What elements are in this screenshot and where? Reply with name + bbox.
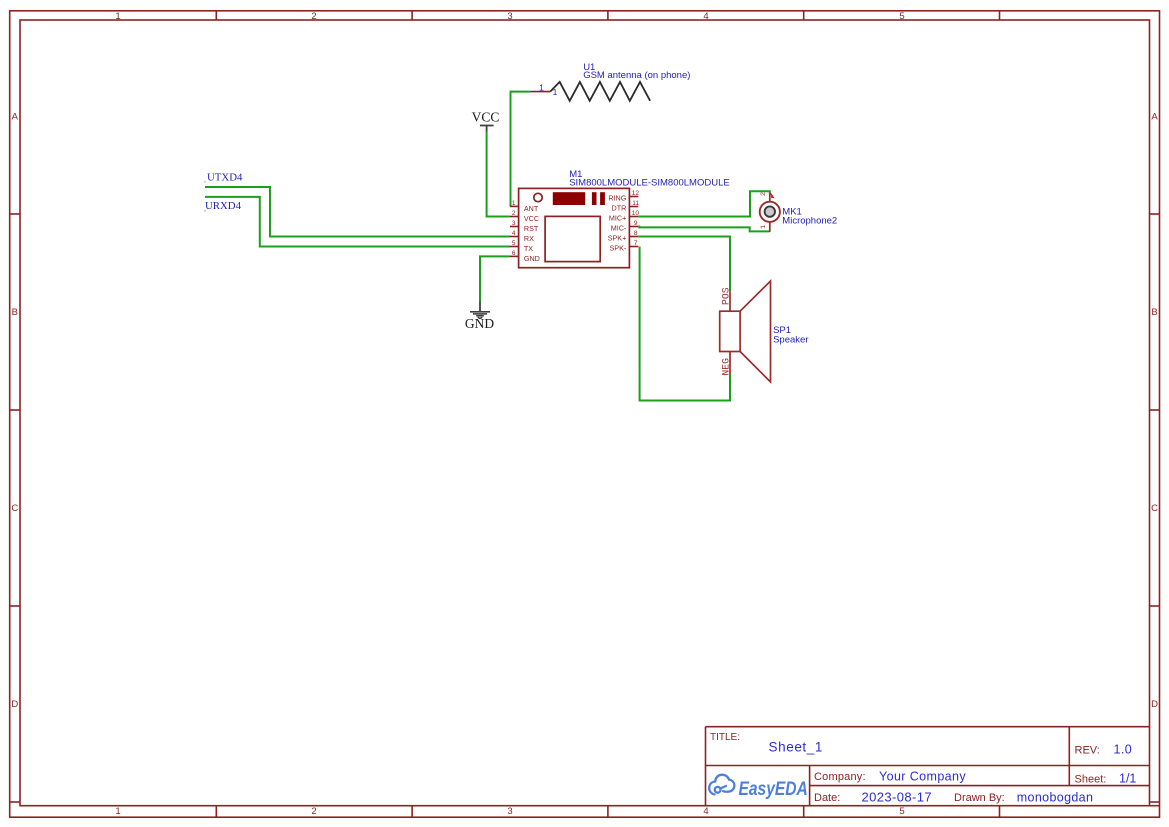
svg-text:1: 1 (539, 83, 544, 93)
svg-text:Date:: Date: (814, 792, 840, 804)
net label UTXD4 anchor dot (204, 181, 206, 183)
wire UTXD4 to M1 pin 4 RX (205, 187, 510, 237)
EasyEDA logo cloud (709, 775, 734, 795)
svg-text:4: 4 (703, 806, 708, 817)
power flag VCC (472, 109, 500, 132)
svg-text:VCC: VCC (472, 109, 500, 124)
svg-text:2: 2 (311, 806, 316, 817)
speaker SP1 (720, 281, 771, 382)
wire M1 pin 1 ANT to antenna U1 (511, 92, 530, 207)
svg-text:1: 1 (115, 11, 120, 22)
M1 pin names right (608, 194, 627, 253)
svg-text:A: A (1151, 112, 1158, 123)
svg-text:MIC-: MIC- (611, 224, 627, 233)
wire URXD4 to M1 pin 5 TX (205, 197, 510, 247)
svg-text:2: 2 (311, 11, 316, 22)
M1 pin names left (524, 204, 540, 263)
svg-text:RING: RING (608, 194, 626, 203)
M1 pins right (629, 197, 638, 247)
svg-text:D: D (1151, 699, 1158, 710)
svg-text:GND: GND (465, 316, 494, 331)
svg-text:Your Company: Your Company (879, 770, 966, 784)
svg-text:C: C (1151, 503, 1158, 514)
svg-text:B: B (1151, 307, 1157, 318)
svg-text:1: 1 (553, 87, 558, 97)
M1 pin numbers right (632, 190, 640, 247)
wire VCC to M1 pin 2 VCC (487, 132, 510, 217)
svg-text:5: 5 (512, 240, 516, 247)
svg-text:7: 7 (634, 240, 638, 247)
svg-text:2023-08-17: 2023-08-17 (862, 790, 933, 805)
wire M1 pin 6 GND to ground (480, 256, 510, 301)
svg-text:D: D (11, 699, 18, 710)
svg-text:B: B (12, 307, 18, 318)
svg-text:SIM800LMODULE-SIM800LMODULE: SIM800LMODULE-SIM800LMODULE (569, 177, 730, 188)
M1 pins left (510, 206, 519, 256)
svg-text:RST: RST (524, 224, 539, 233)
svg-text:ANT: ANT (524, 204, 539, 213)
svg-text:5: 5 (899, 11, 904, 22)
svg-text:8: 8 (634, 230, 638, 237)
EasyEDA logo text (739, 777, 808, 799)
svg-text:1: 1 (512, 200, 516, 207)
wire M1 pin 9 MIC- to MK1 pin 1 (638, 227, 770, 232)
svg-text:EasyEDA: EasyEDA (739, 777, 808, 799)
svg-text:12: 12 (632, 190, 640, 197)
title block (706, 727, 1150, 806)
svg-text:A: A (12, 112, 19, 123)
microphone MK1 (760, 193, 780, 232)
svg-text:Microphone2: Microphone2 (782, 215, 837, 226)
net label URXD4 anchor dot (204, 210, 206, 212)
svg-text:TITLE:: TITLE: (710, 732, 740, 743)
svg-text:Drawn By:: Drawn By: (954, 792, 1005, 804)
svg-text:GND: GND (524, 254, 540, 263)
svg-text:1.0: 1.0 (1114, 742, 1133, 756)
ground GND (465, 301, 494, 331)
svg-text:URXD4: URXD4 (205, 200, 242, 212)
svg-text:4: 4 (703, 11, 708, 22)
wire M1 pin 10 MIC+ to MK1 pin 2 (638, 191, 770, 216)
svg-text:1: 1 (115, 806, 120, 817)
svg-text:3: 3 (507, 806, 512, 817)
antenna U1 (530, 82, 650, 101)
svg-text:SPK+: SPK+ (608, 234, 627, 243)
svg-text:monobogdan: monobogdan (1017, 791, 1093, 805)
M1 body filled rects (553, 192, 605, 205)
svg-text:4: 4 (512, 230, 516, 237)
svg-text:RX: RX (524, 234, 534, 243)
svg-text:SPK-: SPK- (610, 244, 627, 253)
svg-text:MIC+: MIC+ (609, 214, 626, 223)
svg-text:TX: TX (524, 244, 533, 253)
svg-text:3: 3 (512, 220, 516, 227)
svg-text:9: 9 (634, 220, 638, 227)
svg-text:3: 3 (507, 11, 512, 22)
svg-text:GSM antenna (on phone): GSM antenna (on phone) (583, 70, 690, 81)
svg-text:5: 5 (899, 806, 904, 817)
svg-text:11: 11 (632, 200, 639, 207)
svg-text:10: 10 (632, 210, 640, 217)
svg-text:2: 2 (512, 210, 516, 217)
svg-text:VCC: VCC (524, 214, 539, 223)
svg-text:6: 6 (512, 250, 516, 257)
wire M1 pin 7 SPK- to SP1 NEG (640, 247, 730, 401)
svg-text:Company:: Company: (814, 771, 866, 783)
svg-text:NEG: NEG (720, 358, 731, 376)
svg-text:Sheet_1: Sheet_1 (769, 740, 824, 755)
wire M1 pin 8 SPK+ to SP1 POS (638, 237, 730, 292)
svg-text:Sheet:: Sheet: (1075, 774, 1107, 786)
svg-text:Speaker: Speaker (773, 335, 808, 346)
svg-text:REV:: REV: (1075, 744, 1100, 756)
svg-text:POS: POS (720, 287, 731, 305)
svg-text:1/1: 1/1 (1119, 772, 1136, 786)
svg-text:1: 1 (760, 225, 768, 229)
M1 pin numbers left (512, 200, 516, 257)
svg-text:C: C (11, 503, 18, 514)
module M1 SIM800L body (519, 188, 630, 267)
svg-text:UTXD4: UTXD4 (207, 171, 243, 183)
svg-text:DTR: DTR (612, 204, 627, 213)
svg-text:2: 2 (760, 192, 768, 196)
